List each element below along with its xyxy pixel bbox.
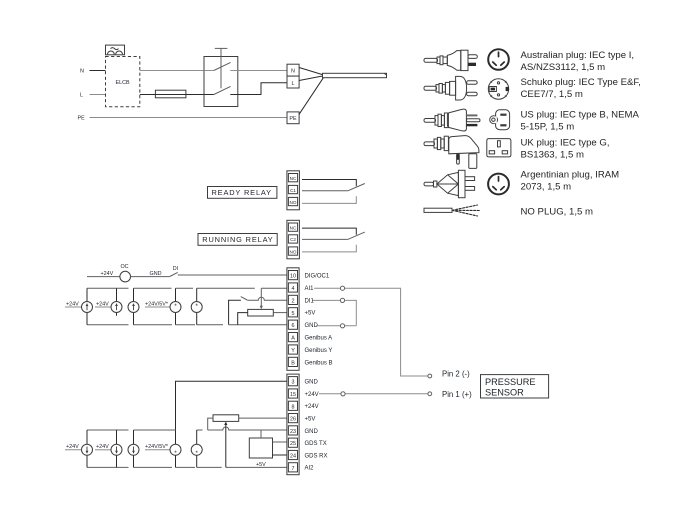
svg-text:GND: GND bbox=[305, 380, 319, 386]
svg-text:GND: GND bbox=[305, 429, 319, 435]
svg-text:4: 4 bbox=[292, 286, 295, 292]
fuse F1 bbox=[155, 90, 186, 98]
wire bracket to terminal 6 GND bbox=[229, 324, 287, 326]
running relay NC wire bbox=[302, 228, 356, 235]
+5V box top stub to GND rail bbox=[260, 430, 262, 438]
ELCB breaker symbol box bbox=[106, 45, 125, 55]
svg-text:Pin 1 (+): Pin 1 (+) bbox=[442, 390, 472, 399]
breaker contact arcs bbox=[108, 51, 123, 54]
svg-text:OC: OC bbox=[120, 264, 128, 270]
voltage source circle at x=175.5 bbox=[170, 302, 181, 313]
wire +24V lower source A bbox=[65, 449, 82, 451]
READY RELAY label box bbox=[208, 187, 277, 199]
RUNNING RELAY label box bbox=[198, 234, 277, 246]
svg-text:8: 8 bbox=[292, 404, 295, 410]
svg-text:+24V: +24V bbox=[66, 444, 79, 450]
potentiometer R2 bbox=[213, 415, 239, 422]
US plug side view bbox=[424, 109, 480, 131]
current source circle at x=116.5 (down arrow) bbox=[111, 444, 122, 455]
svg-text:GDS TX: GDS TX bbox=[305, 441, 327, 447]
+5V box wire to terminal 24 GDS RX bbox=[273, 454, 287, 456]
wire PE bbox=[90, 117, 288, 119]
svg-text:NO: NO bbox=[290, 249, 297, 254]
ready relay terminal C1 bbox=[288, 185, 297, 193]
svg-text:N: N bbox=[291, 69, 295, 75]
GND right wire bbox=[316, 325, 356, 327]
ready relay terminal NO bbox=[288, 197, 297, 205]
wire L ELCB to fuse bbox=[140, 94, 156, 96]
terminal 4 box bbox=[288, 283, 297, 292]
current source circle at x=175.5 (down arrow) bbox=[170, 444, 181, 455]
ready relay NO wire bbox=[302, 196, 356, 203]
Australian plug side view bbox=[424, 50, 477, 70]
svg-text:PE: PE bbox=[289, 116, 297, 122]
upper sources top rail bbox=[87, 287, 129, 289]
AI1 wiper arrow onto potentiometer bbox=[260, 288, 262, 306]
wire OC to DI switch bbox=[131, 276, 170, 278]
DI1 wire with hop to terminal 2 bbox=[247, 297, 287, 300]
svg-text:US plug: IEC type B, NEMA: US plug: IEC type B, NEMA bbox=[521, 110, 640, 121]
Schuko plug side view bbox=[424, 76, 477, 100]
switch L pole bbox=[204, 94, 214, 96]
pin 1 wire from terminal 15 bbox=[319, 393, 428, 395]
terminal B box bbox=[288, 357, 297, 366]
svg-text:5: 5 bbox=[292, 311, 295, 317]
pot R2 left hook to GND rail bbox=[208, 418, 213, 430]
svg-text:2: 2 bbox=[292, 298, 295, 304]
svg-text:Y: Y bbox=[291, 348, 295, 354]
source B vertical bbox=[116, 288, 118, 301]
voltage source circle at x=87 bbox=[82, 302, 93, 313]
DI switch contact bbox=[170, 272, 178, 276]
wire +24V lower source B bbox=[95, 449, 111, 451]
svg-text:+5V: +5V bbox=[305, 417, 316, 423]
terminal 15 box bbox=[288, 389, 297, 398]
switch N pole bbox=[204, 70, 214, 72]
pin 1 connector circle bbox=[428, 392, 432, 396]
terminal 24 box bbox=[288, 450, 297, 459]
source C vertical bbox=[133, 288, 135, 301]
ready relay C1 wire and contact bbox=[302, 190, 348, 192]
svg-text:23: 23 bbox=[290, 429, 296, 435]
US plug face view bbox=[490, 110, 510, 130]
svg-text:5-15P, 1,5 m: 5-15P, 1,5 m bbox=[521, 122, 575, 133]
ready relay terminal strip bbox=[287, 171, 300, 210]
svg-text:+24V: +24V bbox=[96, 301, 109, 307]
running relay terminal strip bbox=[287, 220, 300, 258]
wire L input bbox=[90, 94, 106, 96]
source D vertical bbox=[175, 288, 177, 301]
terminal 8 box bbox=[288, 401, 297, 410]
pin 2 connector circle bbox=[428, 374, 432, 378]
wire N switch to terminal bbox=[230, 70, 287, 72]
UK plug face view bbox=[487, 139, 511, 157]
pin1 junction circle bbox=[341, 392, 345, 396]
+5V interface box bbox=[249, 438, 272, 458]
svg-text:PRESSURE: PRESSURE bbox=[485, 377, 536, 387]
terminal 5 box bbox=[288, 308, 297, 317]
Schuko plug face view bbox=[488, 79, 509, 99]
Australian plug face view bbox=[488, 49, 509, 70]
terminal 25 box bbox=[288, 438, 297, 447]
terminal 10 box bbox=[288, 271, 297, 280]
svg-text:NO PLUG, 1,5 m: NO PLUG, 1,5 m bbox=[521, 207, 594, 218]
AI1 junction circle bbox=[340, 286, 344, 290]
svg-text:Genibus B: Genibus B bbox=[305, 360, 333, 366]
svg-text:Genibus A: Genibus A bbox=[305, 336, 333, 342]
svg-text:+24V: +24V bbox=[101, 271, 114, 277]
lower terminal strip outline bbox=[287, 374, 299, 475]
svg-text:UK plug: IEC type G,: UK plug: IEC type G, bbox=[521, 138, 610, 149]
svg-text:+24V: +24V bbox=[96, 444, 109, 450]
svg-text:Australian plug: IEC type I,: Australian plug: IEC type I, bbox=[521, 50, 635, 61]
running relay terminal C2 bbox=[288, 235, 297, 243]
lower source C vertical bbox=[133, 430, 135, 444]
svg-text:GND: GND bbox=[150, 271, 162, 277]
svg-text:6: 6 bbox=[292, 323, 295, 329]
pot R2 wire to terminal 26 bbox=[239, 417, 287, 419]
ELCB dashed box bbox=[106, 57, 140, 107]
svg-text:2073, 1,5 m: 2073, 1,5 m bbox=[521, 182, 572, 193]
running relay terminal NC bbox=[288, 223, 297, 231]
lower source A vertical bbox=[86, 430, 88, 444]
svg-text:RUNNING RELAY: RUNNING RELAY bbox=[202, 235, 273, 244]
svg-text:READY RELAY: READY RELAY bbox=[212, 188, 272, 197]
svg-text:DI1: DI1 bbox=[305, 298, 315, 304]
lower sources top rail bbox=[87, 429, 129, 431]
ready relay terminal NC bbox=[288, 174, 297, 182]
wire L to cable junction bbox=[299, 76, 322, 81]
running relay C2 wire and contact bbox=[302, 238, 348, 240]
current source circle at x=87 (down arrow) bbox=[82, 444, 93, 455]
svg-text:AS/NZS3112, 1,5 m: AS/NZS3112, 1,5 m bbox=[521, 62, 606, 73]
terminal 23 box bbox=[288, 426, 297, 435]
wire DI to terminal 10 bbox=[178, 274, 287, 276]
wire +24V source B bbox=[95, 306, 111, 308]
voltage source circle at x=116.5 bbox=[111, 302, 122, 313]
DI1 right wire bbox=[313, 300, 357, 325]
source E vertical bbox=[196, 288, 198, 301]
PRESSURE SENSOR box bbox=[481, 375, 549, 398]
pot R1 wire to terminal 5 bbox=[273, 312, 287, 314]
svg-text:ELCB: ELCB bbox=[116, 80, 130, 86]
voltage source circle at x=196.7 bbox=[191, 302, 202, 313]
terminal 6 box bbox=[288, 320, 297, 329]
svg-text:L: L bbox=[292, 81, 295, 87]
no-plug cable bbox=[424, 208, 452, 212]
Argentinian plug face view bbox=[488, 174, 509, 195]
pot R2 wiper arrow bbox=[225, 423, 227, 467]
voltage source circle at x=133.5 bbox=[128, 302, 139, 313]
svg-text:3: 3 bbox=[292, 380, 295, 386]
lower sources bottom rail AI2 bbox=[87, 466, 129, 468]
svg-text:B: B bbox=[291, 360, 295, 366]
svg-text:26: 26 bbox=[290, 417, 296, 423]
OC circle bbox=[120, 271, 131, 282]
svg-text:Argentinian plug, IRAM: Argentinian plug, IRAM bbox=[521, 170, 620, 181]
svg-text:+24V: +24V bbox=[305, 392, 319, 398]
pot R1 wire to GND rail bbox=[238, 313, 248, 325]
AI1 wire to terminal 4 bbox=[261, 287, 287, 289]
ready relay NC wire bbox=[302, 180, 356, 187]
svg-text:+24V/5V*: +24V/5V* bbox=[145, 444, 169, 450]
upper terminal strip outline bbox=[287, 268, 299, 371]
svg-text:+5V: +5V bbox=[256, 462, 266, 468]
svg-text:+24V/5V*: +24V/5V* bbox=[145, 301, 169, 307]
svg-text:+5V: +5V bbox=[305, 311, 316, 317]
svg-text:NC: NC bbox=[290, 176, 297, 181]
terminal 3 box bbox=[288, 377, 297, 386]
GND junction circle bbox=[340, 324, 344, 328]
svg-text:15: 15 bbox=[290, 392, 296, 398]
svg-text:C2: C2 bbox=[290, 237, 296, 242]
terminal PE box bbox=[287, 112, 299, 124]
svg-text:24: 24 bbox=[290, 454, 296, 460]
svg-text:7: 7 bbox=[292, 466, 295, 472]
svg-text:AI2: AI2 bbox=[305, 466, 315, 472]
no-plug frayed wires bbox=[452, 205, 479, 216]
svg-text:A: A bbox=[291, 336, 295, 342]
terminal 26 box bbox=[288, 414, 297, 423]
lower source B vertical bbox=[116, 430, 118, 444]
GND rail to terminal 23 with hop bbox=[208, 427, 287, 430]
svg-text:L: L bbox=[80, 92, 83, 98]
switch handle bbox=[220, 48, 222, 88]
Argentinian plug side view bbox=[424, 170, 475, 197]
svg-text:PE: PE bbox=[78, 115, 86, 121]
AI1 wire to pressure sensor pin2 bbox=[314, 288, 428, 376]
svg-text:DIG/OC1: DIG/OC1 bbox=[305, 274, 330, 280]
svg-text:+24V: +24V bbox=[305, 404, 319, 410]
upper sources bottom rail bbox=[87, 324, 129, 326]
svg-text:CEE7/7, 1,5 m: CEE7/7, 1,5 m bbox=[521, 89, 583, 100]
svg-text:NC: NC bbox=[290, 225, 297, 230]
svg-text:+24V: +24V bbox=[66, 301, 79, 307]
breaker sine squiggle bbox=[111, 48, 119, 50]
wire +24V/5V lower source D bbox=[145, 449, 170, 451]
svg-text:C1: C1 bbox=[290, 188, 296, 193]
wire N to cable junction bbox=[299, 68, 322, 75]
svg-text:BS1363, 1,5 m: BS1363, 1,5 m bbox=[521, 150, 584, 161]
terminal Y box bbox=[288, 345, 297, 354]
svg-text:Schuko plug: IEC Type E&F,: Schuko plug: IEC Type E&F, bbox=[521, 77, 641, 88]
running relay NO wire bbox=[302, 245, 356, 252]
wire L fuse to switch bbox=[186, 94, 204, 96]
wire +24V to OC circle bbox=[87, 276, 120, 278]
wire N input bbox=[90, 70, 106, 72]
wire +24V source A bbox=[65, 306, 82, 308]
lower source E vertical bbox=[196, 430, 198, 444]
wire +24V/5V source D bbox=[145, 306, 170, 308]
terminal A box bbox=[288, 333, 297, 342]
DI1 switch contact bbox=[241, 297, 248, 300]
lower source D vertical bbox=[175, 455, 177, 467]
UK plug side view bbox=[424, 136, 479, 169]
AI2 wire to terminal 7 bbox=[226, 466, 287, 468]
GND terminal-3 wire bbox=[176, 381, 287, 444]
+5V box wire to terminal 25 GDS TX bbox=[273, 441, 287, 443]
svg-text:NO: NO bbox=[290, 200, 297, 205]
svg-text:Pin 2 (-): Pin 2 (-) bbox=[442, 370, 470, 379]
terminal 2 box bbox=[288, 295, 297, 304]
current source circle at x=133.5 (down arrow) bbox=[128, 444, 139, 455]
mains cable bbox=[323, 73, 387, 77]
svg-text:N: N bbox=[80, 68, 84, 74]
svg-text:25: 25 bbox=[290, 441, 296, 447]
terminal 7 box bbox=[288, 463, 297, 472]
current source circle at x=196.7 (down arrow) bbox=[191, 444, 202, 455]
svg-text:SENSOR: SENSOR bbox=[485, 387, 524, 397]
source A vertical bbox=[86, 288, 88, 301]
DI1 switch bracket bbox=[229, 300, 241, 325]
wire L switch to terminal bbox=[230, 83, 287, 95]
potentiometer R1 bbox=[248, 309, 274, 316]
wire PE to cable junction bbox=[299, 78, 323, 115]
terminal L box bbox=[287, 76, 299, 88]
main switch box bbox=[204, 57, 238, 107]
svg-text:Genibus Y: Genibus Y bbox=[305, 348, 333, 354]
svg-text:10: 10 bbox=[290, 274, 296, 280]
svg-text:DI: DI bbox=[173, 266, 178, 272]
svg-text:GDS RX: GDS RX bbox=[305, 453, 328, 459]
running relay terminal NO bbox=[288, 247, 297, 255]
DI1 junction circle bbox=[340, 298, 344, 302]
terminal N box bbox=[287, 64, 299, 76]
wire N ELCB to switch bbox=[140, 70, 204, 72]
svg-text:AI1: AI1 bbox=[305, 286, 315, 292]
